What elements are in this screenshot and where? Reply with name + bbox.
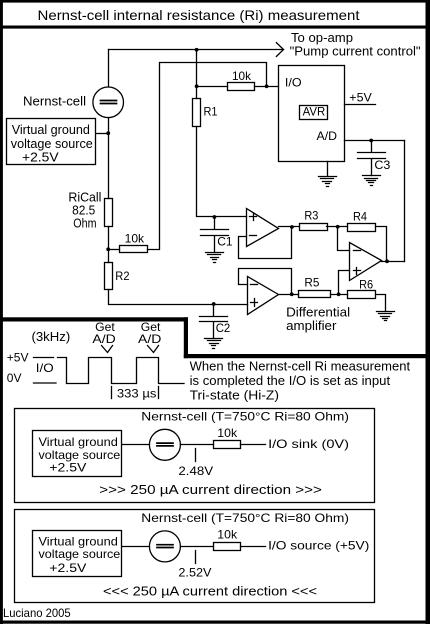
op-amp U2 triangle xyxy=(248,277,279,315)
svg-text:When the Nernst-cell Ri measur: When the Nernst-cell Ri measurement xyxy=(190,359,411,374)
main schematic box step vertical border xyxy=(184,317,188,358)
op-amp U3 triangle xyxy=(350,243,382,281)
wire U2 output to R5 xyxy=(279,294,299,296)
wire RiCall to R2 xyxy=(108,227,110,263)
svg-text:I/O sink (0V): I/O sink (0V) xyxy=(268,437,349,451)
box 2 virtual ground box xyxy=(33,531,122,577)
box 1 wire cell to 10k xyxy=(181,444,214,446)
svg-text:I/O: I/O xyxy=(36,361,54,375)
outer border left xyxy=(0,0,3,624)
svg-text:R4: R4 xyxy=(353,210,367,224)
node dot 10k tap xyxy=(106,247,110,251)
svg-text:A/D: A/D xyxy=(317,129,338,143)
wire R4 to diff output xyxy=(376,227,387,262)
main schematic box bottom-left border xyxy=(0,317,188,321)
box 2 resistor 10k xyxy=(214,543,241,551)
svg-text:C3: C3 xyxy=(374,158,390,172)
svg-text:Luciano 2005: Luciano 2005 xyxy=(3,606,71,620)
capacitor C2 xyxy=(200,305,228,339)
resistor R5 xyxy=(299,291,331,298)
op-amp U1 triangle xyxy=(247,209,279,247)
wire V1 bottom stem to RiCall xyxy=(108,118,110,199)
svg-text:Nernst-cell (T=750°C Ri=80 O: Nernst-cell (T=750°C Ri=80 Ohm) xyxy=(141,511,349,525)
box 2 wire vg to cell xyxy=(123,546,150,548)
wire virtual ground to cell stem xyxy=(97,133,109,135)
svg-text:(3kHz): (3kHz) xyxy=(32,329,71,344)
wire U3 output xyxy=(382,261,405,263)
node dot I/O junction xyxy=(265,84,269,88)
svg-text:C1: C1 xyxy=(217,235,233,249)
U1 feedback wire xyxy=(239,227,292,259)
resistor R4 xyxy=(348,224,376,232)
wire V1 top stem xyxy=(108,50,110,87)
box 1 wire vg to cell xyxy=(123,444,150,446)
svg-text:+2.5V: +2.5V xyxy=(49,461,86,475)
svg-text:R3: R3 xyxy=(304,209,318,223)
333us right tick xyxy=(158,387,160,399)
node dot U3 output xyxy=(385,259,389,263)
U2 feedback wire xyxy=(239,269,292,295)
V1 cell bars xyxy=(101,101,117,104)
wire R5/R6 tap to U3 plus xyxy=(339,271,350,295)
svg-text:10k: 10k xyxy=(217,426,238,440)
wire R2 bottom to op-amp U2 + xyxy=(109,290,248,305)
svg-text:R6: R6 xyxy=(359,278,373,292)
+5V level tick xyxy=(34,357,54,359)
svg-text:amplifier: amplifier xyxy=(286,318,337,333)
svg-text:2.48V: 2.48V xyxy=(178,464,213,478)
resistor R1 xyxy=(193,99,201,127)
box 2 voltage tick xyxy=(195,551,197,564)
wire A/D down to diff-amp output xyxy=(404,141,406,262)
node dot top rail / R1 xyxy=(195,48,199,52)
wire loop from lower 10k to I/O xyxy=(148,63,267,250)
box 1 outline xyxy=(15,409,375,503)
wire R3 to R4 xyxy=(327,226,348,228)
svg-text:+5V: +5V xyxy=(349,91,372,105)
box 1 wire 10k to I/O xyxy=(241,444,266,446)
wire R5 to R6 xyxy=(331,294,348,296)
box 2 Nernst cell circle xyxy=(149,531,180,562)
resistor R2 xyxy=(105,263,113,290)
node dot U1 output xyxy=(290,225,294,229)
capacitor C3 xyxy=(358,141,386,176)
svg-text:333 µs: 333 µs xyxy=(117,387,156,401)
resistor R3 xyxy=(300,224,328,231)
svg-text:Nernst-cell: Nernst-cell xyxy=(23,94,86,109)
svg-text:2.52V: 2.52V xyxy=(178,566,211,580)
node dot R5/R6 xyxy=(337,292,341,296)
333us left tick xyxy=(111,387,113,399)
U3 minus input symbol xyxy=(354,250,361,252)
title separator bar xyxy=(0,26,430,29)
arrowhead to op-amp xyxy=(276,43,283,57)
svg-text:>>> 250 µA current direction >: >>> 250 µA current direction >>> xyxy=(99,482,322,497)
wire R1 bottom to op-amp U1 + xyxy=(197,127,247,217)
resistor 10k (top) xyxy=(228,83,255,91)
sample marker 1 xyxy=(102,346,113,353)
box 2 wire 10k to I/O xyxy=(241,546,266,548)
svg-text:10k: 10k xyxy=(125,231,145,245)
node dot R3/R4 xyxy=(336,225,340,229)
sample marker 2 xyxy=(148,346,159,353)
svg-text:10k: 10k xyxy=(217,528,238,542)
wire R6 to ground xyxy=(376,295,386,312)
svg-text:+2.5V: +2.5V xyxy=(22,149,59,164)
capacitor C1 xyxy=(201,217,229,253)
U3 plus input symbol xyxy=(354,268,361,275)
0V level tick xyxy=(34,382,57,384)
+5V pin line xyxy=(345,104,376,106)
box 1 Nernst cell circle xyxy=(149,429,180,460)
svg-text:voltage source: voltage source xyxy=(39,547,121,561)
svg-text:Nernst-cell (T=750°C Ri=80 O: Nernst-cell (T=750°C Ri=80 Ohm) xyxy=(141,410,349,424)
wire tap to 10k lower xyxy=(109,249,120,251)
svg-text:+5V: +5V xyxy=(7,351,29,365)
outer border bottom xyxy=(0,621,430,624)
box 1 virtual ground box xyxy=(33,431,122,477)
ground (C3) xyxy=(363,176,381,186)
svg-text:R2: R2 xyxy=(115,269,129,283)
wire top rail to arrow xyxy=(109,49,284,51)
U1 minus input symbol xyxy=(250,235,257,237)
main schematic box bottom-right border xyxy=(184,354,426,358)
wire U1 output to R3 xyxy=(279,226,300,228)
svg-text:A/D: A/D xyxy=(92,332,116,346)
svg-text:I/O: I/O xyxy=(285,76,302,90)
svg-text:<<< 250 µA current direction <: <<< 250 µA current direction <<< xyxy=(103,584,317,599)
node dot C2 tap xyxy=(212,302,216,306)
resistor 10k (lower) xyxy=(120,246,148,253)
svg-text:A/D: A/D xyxy=(138,332,162,346)
svg-text:0V: 0V xyxy=(7,371,22,385)
node dot A/D / C3 xyxy=(369,139,373,143)
outer border right xyxy=(426,0,430,624)
resistor R6 xyxy=(348,291,376,299)
AVR inner box xyxy=(300,106,328,120)
box 2 outline xyxy=(15,510,375,603)
wire R1 top xyxy=(196,50,198,99)
outer border top xyxy=(0,0,430,3)
A/D pin wire xyxy=(345,140,405,142)
svg-text:is completed the I/O is set as: is completed the I/O is set as input xyxy=(190,373,391,388)
AVR MCU box U4 xyxy=(279,66,345,162)
node dot R1 / 10k xyxy=(195,84,199,88)
box 1 cell bars xyxy=(157,443,173,446)
svg-text:R1: R1 xyxy=(204,105,218,119)
virtual ground source box xyxy=(7,119,96,165)
svg-text:+2.5V: +2.5V xyxy=(49,561,86,575)
ground (R6) xyxy=(377,312,395,321)
svg-text:Ohm: Ohm xyxy=(73,216,96,231)
svg-text:Virtual ground: Virtual ground xyxy=(12,122,90,137)
wire to 10k top resistor xyxy=(197,86,228,88)
I/O square waveform xyxy=(58,358,185,384)
node dot stem xyxy=(106,131,110,135)
svg-text:Nernst-cell internal resistanc: Nernst-cell internal resistance (Ri) mea… xyxy=(38,7,360,23)
ground (AVR) xyxy=(319,162,337,187)
svg-text:R5: R5 xyxy=(304,276,319,290)
ground (C2) xyxy=(205,339,223,349)
wire R3/R4 tap to U3 minus xyxy=(338,227,350,251)
box 2 cell bars xyxy=(157,545,173,548)
svg-text:Tri-state (Hi-Z): Tri-state (Hi-Z) xyxy=(190,388,279,403)
wire 10k to AVR I/O pin xyxy=(255,86,279,88)
node dot U2 output xyxy=(290,292,294,296)
U2 minus input symbol xyxy=(251,284,258,286)
svg-text:10k: 10k xyxy=(232,69,252,83)
svg-text:AVR: AVR xyxy=(303,105,326,119)
box 1 resistor 10k xyxy=(214,441,241,449)
Nernst-cell source V1 circle xyxy=(93,87,124,118)
U1 plus input symbol xyxy=(250,214,257,221)
resistor RiCall xyxy=(105,199,113,227)
node dot C1 tap xyxy=(213,215,217,219)
svg-text:I/O source (+5V): I/O source (+5V) xyxy=(268,539,369,553)
svg-text:C2: C2 xyxy=(216,321,231,335)
U2 plus input symbol xyxy=(251,299,258,307)
box 1 voltage tick xyxy=(195,449,197,462)
box 2 wire cell to 10k xyxy=(181,546,214,548)
svg-text:"Pump current control": "Pump current control" xyxy=(290,44,421,59)
ground (C1) xyxy=(206,253,224,263)
